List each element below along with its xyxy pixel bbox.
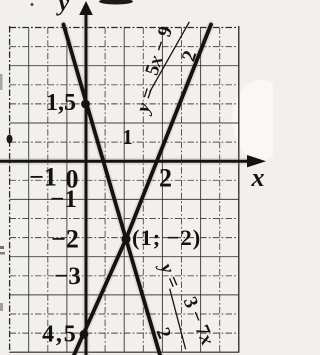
svg-text:x: x — [251, 163, 265, 192]
svg-text:−2: −2 — [51, 225, 79, 254]
svg-text:(1; −2): (1; −2) — [132, 225, 201, 250]
svg-text:y: y — [56, 0, 70, 17]
svg-text:−3: −3 — [54, 263, 81, 290]
svg-text:1: 1 — [122, 125, 133, 149]
svg-text:1,5: 1,5 — [46, 90, 76, 116]
svg-text:2: 2 — [159, 163, 172, 192]
svg-text:4,5: 4,5 — [42, 321, 77, 347]
svg-text:−1: −1 — [50, 186, 77, 213]
